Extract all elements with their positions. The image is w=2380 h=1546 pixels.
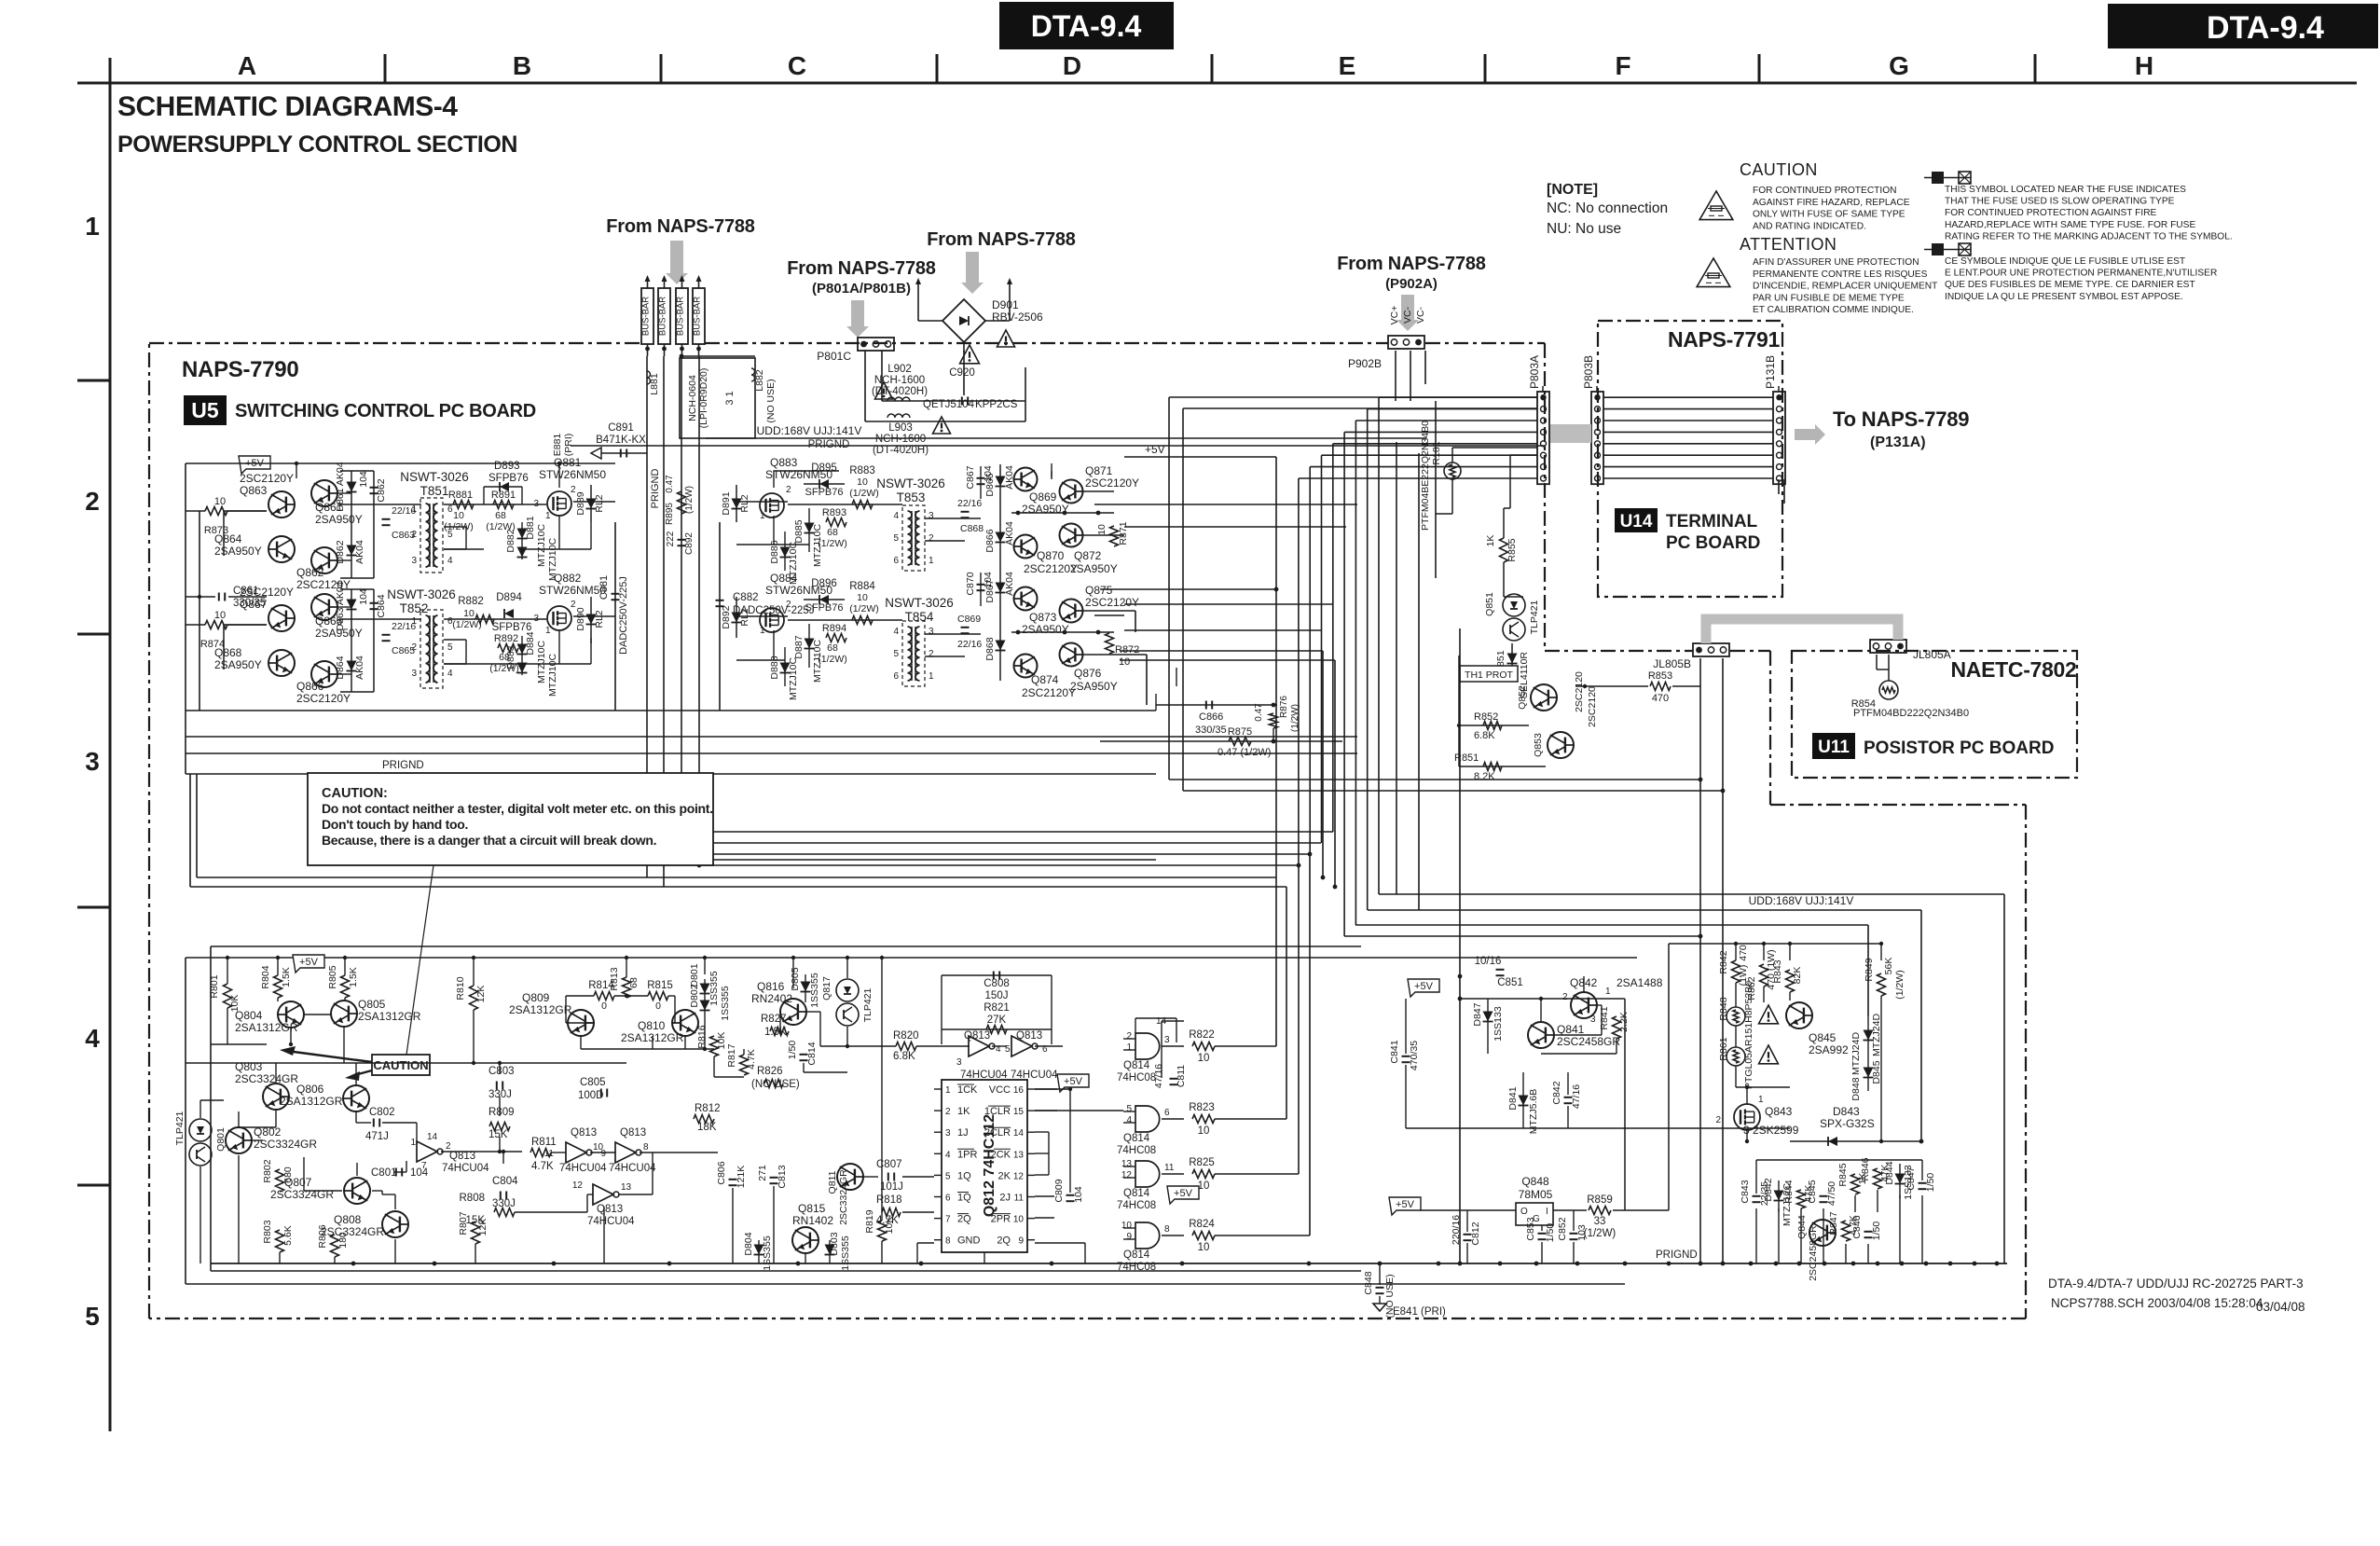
svg-text:MTZJ10C: MTZJ10C: [812, 640, 823, 683]
svg-text:+5V: +5V: [1396, 1199, 1415, 1210]
svg-text:R820: R820: [893, 1030, 919, 1042]
svg-text:C920: C920: [949, 367, 975, 379]
svg-text:C811: C811: [1176, 1065, 1187, 1087]
svg-text:F: F: [1615, 51, 1630, 80]
svg-text:(P902A): (P902A): [1385, 276, 1438, 292]
svg-text:2: 2: [786, 485, 791, 495]
svg-text:680: 680: [282, 1166, 294, 1183]
svg-text:22/16: 22/16: [957, 498, 982, 509]
svg-text:SFPB76: SFPB76: [805, 487, 844, 498]
svg-text:D889: D889: [575, 491, 586, 515]
svg-text:D882: D882: [505, 529, 516, 552]
svg-text:TERMINAL: TERMINAL: [1666, 512, 1758, 531]
svg-text:TH1 PROT: TH1 PROT: [1465, 669, 1514, 681]
svg-text:D867: D867: [984, 579, 996, 602]
svg-text:U5: U5: [191, 398, 219, 422]
svg-text:4: 4: [447, 669, 453, 679]
svg-text:Q816: Q816: [757, 980, 785, 993]
svg-text:471J: 471J: [365, 1131, 389, 1142]
svg-text:POWERSUPPLY CONTROL SECTION: POWERSUPPLY CONTROL SECTION: [117, 131, 517, 158]
svg-text:10/16: 10/16: [1475, 956, 1502, 967]
svg-text:C843: C843: [1740, 1180, 1751, 1203]
svg-text:(PRI): (PRI): [563, 434, 574, 457]
svg-text:T852: T852: [400, 601, 429, 615]
svg-text:13: 13: [1121, 1159, 1133, 1169]
svg-text:104: 104: [1073, 1186, 1084, 1203]
svg-text:+5V: +5V: [1414, 981, 1434, 992]
svg-text:2SC3324GR: 2SC3324GR: [270, 1188, 334, 1201]
svg-text:2SC3324GR: 2SC3324GR: [838, 1169, 849, 1225]
svg-text:3: 3: [1164, 1035, 1170, 1045]
svg-text:2Q: 2Q: [957, 1214, 971, 1225]
svg-text:15K: 15K: [488, 1129, 508, 1140]
svg-text:R873: R873: [204, 525, 228, 536]
svg-text:NCPS7788.SCH 2003/04/08 15:28:: NCPS7788.SCH 2003/04/08 15:28:04: [2051, 1296, 2263, 1310]
svg-text:2: 2: [929, 533, 934, 544]
svg-text:D803: D803: [829, 1232, 840, 1255]
svg-text:10: 10: [214, 610, 226, 621]
svg-text:10: 10: [1121, 1221, 1133, 1231]
svg-text:P902B: P902B: [1348, 357, 1382, 370]
svg-text:3: 3: [411, 669, 417, 679]
svg-text:BUS-BAR: BUS-BAR: [658, 297, 668, 336]
svg-text:180: 180: [337, 1232, 349, 1249]
svg-text:2K: 2K: [998, 1170, 1011, 1181]
svg-text:6: 6: [893, 556, 899, 566]
svg-text:(1/2W): (1/2W): [1894, 970, 1905, 1000]
svg-text:RL2: RL2: [739, 494, 750, 512]
svg-text:UDD:168V UJJ:141V: UDD:168V UJJ:141V: [1749, 894, 1854, 907]
svg-text:5: 5: [85, 1302, 100, 1331]
svg-text:1SS355: 1SS355: [762, 1235, 773, 1271]
svg-text:CE SYMBOLE INDIQUE QUE LE FUSI: CE SYMBOLE INDIQUE QUE LE FUSIBLE UTLISE…: [1945, 256, 2185, 267]
svg-text:Q814: Q814: [1123, 1133, 1150, 1144]
svg-text:101J: 101J: [880, 1181, 903, 1193]
svg-text:L882: L882: [754, 369, 765, 392]
svg-text:SFPB76: SFPB76: [492, 622, 532, 633]
svg-text:2: 2: [929, 649, 934, 659]
svg-text:O: O: [1520, 1207, 1528, 1217]
svg-text:R855: R855: [1506, 538, 1518, 561]
svg-text:PC BOARD: PC BOARD: [1666, 533, 1760, 553]
svg-text:Q804: Q804: [235, 1009, 263, 1022]
svg-text:C866: C866: [1199, 711, 1223, 723]
svg-text:C808: C808: [984, 978, 1010, 989]
svg-text:QETJ5104: QETJ5104: [923, 399, 975, 410]
svg-text:1: 1: [929, 671, 934, 682]
svg-text:H: H: [2135, 51, 2153, 80]
svg-text:E: E: [1339, 51, 1356, 80]
svg-text:C814: C814: [806, 1042, 818, 1065]
svg-text:16: 16: [1013, 1085, 1025, 1096]
svg-text:2SA950Y: 2SA950Y: [315, 513, 363, 526]
svg-text:4.7K: 4.7K: [746, 1049, 757, 1070]
svg-text:1CK: 1CK: [957, 1084, 978, 1096]
svg-text:R806: R806: [317, 1224, 328, 1248]
svg-text:Q841: Q841: [1557, 1023, 1585, 1036]
svg-text:D804: D804: [743, 1232, 754, 1255]
svg-text:C861: C861: [233, 586, 259, 597]
svg-text:1.5K: 1.5K: [348, 967, 359, 987]
svg-text:B: B: [513, 51, 531, 80]
svg-text:UDD:168V UJJ:141V: UDD:168V UJJ:141V: [757, 424, 862, 437]
svg-text:1PR: 1PR: [957, 1149, 977, 1160]
svg-text:TLP421: TLP421: [174, 1111, 186, 1145]
svg-text:R818: R818: [876, 1194, 902, 1206]
svg-text:1SS355: 1SS355: [708, 971, 720, 1006]
svg-text:D805: D805: [790, 967, 801, 990]
svg-text:BUS-BAR: BUS-BAR: [676, 297, 686, 336]
svg-text:1/50: 1/50: [787, 1041, 798, 1060]
svg-text:NCH-0604: NCH-0604: [687, 375, 698, 421]
svg-text:R881: R881: [448, 490, 473, 501]
svg-text:R817: R817: [726, 1043, 737, 1067]
svg-text:2J: 2J: [999, 1193, 1011, 1204]
svg-text:2SC2120: 2SC2120: [1574, 671, 1585, 712]
svg-text:RBV-2506: RBV-2506: [992, 311, 1043, 324]
svg-text:68: 68: [827, 642, 838, 654]
svg-text:14: 14: [427, 1132, 438, 1142]
svg-text:10: 10: [463, 608, 475, 619]
svg-text:1/50: 1/50: [1925, 1173, 1936, 1193]
svg-text:D848: D848: [1850, 1077, 1862, 1100]
svg-text:R874: R874: [200, 639, 225, 650]
svg-text:U14: U14: [1620, 512, 1653, 531]
svg-text:C806: C806: [716, 1161, 727, 1184]
svg-text:Q811: Q811: [827, 1170, 838, 1194]
svg-text:JL805B: JL805B: [1653, 657, 1691, 670]
svg-text:NAPS-7791: NAPS-7791: [1668, 327, 1781, 352]
svg-text:SFPB76: SFPB76: [488, 473, 529, 484]
svg-text:12: 12: [1121, 1170, 1133, 1180]
svg-text:1/50: 1/50: [1545, 1223, 1556, 1243]
svg-text:AK04: AK04: [1004, 521, 1015, 545]
svg-text:2SA992: 2SA992: [1809, 1043, 1849, 1056]
svg-text:Q872: Q872: [1074, 549, 1102, 562]
svg-text:2: 2: [945, 1107, 951, 1117]
svg-text:2SC2120Y: 2SC2120Y: [1022, 686, 1076, 699]
svg-text:AGAINST FIRE HAZARD, REPLACE: AGAINST FIRE HAZARD, REPLACE: [1753, 198, 1910, 208]
svg-text:6.8K: 6.8K: [1474, 730, 1495, 741]
svg-text:2SA950Y: 2SA950Y: [1022, 503, 1069, 516]
svg-text:4: 4: [893, 511, 899, 521]
svg-text:CAUTION: CAUTION: [1740, 160, 1818, 179]
svg-text:4.7K: 4.7K: [531, 1161, 554, 1172]
svg-text:T853: T853: [897, 490, 926, 504]
svg-text:C801: C801: [371, 1167, 397, 1179]
svg-text:3: 3: [929, 511, 934, 521]
svg-text:POSISTOR PC BOARD: POSISTOR PC BOARD: [1864, 738, 2054, 758]
svg-text:SCHEMATIC DIAGRAMS-4: SCHEMATIC DIAGRAMS-4: [117, 91, 458, 122]
svg-text:4: 4: [447, 556, 453, 566]
svg-text:HAZARD,REPLACE WITH SAME TYPE: HAZARD,REPLACE WITH SAME TYPE FUSE. FOR …: [1945, 220, 2195, 230]
svg-text:1: 1: [545, 626, 551, 636]
svg-text:NSWT-3026: NSWT-3026: [400, 470, 469, 484]
svg-text:NCH-1600: NCH-1600: [875, 434, 926, 445]
svg-text:12K: 12K: [477, 1219, 488, 1236]
svg-text:Q813: Q813: [449, 1151, 475, 1162]
svg-text:MTZJ24D: MTZJ24D: [1850, 1032, 1862, 1076]
svg-text:13: 13: [1013, 1150, 1025, 1160]
svg-text:Q871: Q871: [1085, 464, 1113, 477]
svg-text:1: 1: [411, 504, 417, 515]
svg-text:R801: R801: [209, 974, 220, 998]
svg-text:0.47: 0.47: [1254, 703, 1264, 722]
svg-text:D868: D868: [984, 637, 996, 660]
svg-text:THAT THE FUSE USED IS SLOW OPE: THAT THE FUSE USED IS SLOW OPERATING TYP…: [1945, 197, 2175, 207]
svg-text:2SC2120Y: 2SC2120Y: [1085, 596, 1139, 609]
svg-text:AND RATING INDICATED.: AND RATING INDICATED.: [1753, 221, 1866, 231]
svg-text:R811: R811: [531, 1137, 557, 1148]
svg-text:R846: R846: [1860, 1157, 1871, 1180]
svg-text:Q883: Q883: [770, 456, 798, 469]
svg-text:3: 3: [956, 1057, 962, 1068]
svg-text:10: 10: [453, 510, 464, 521]
svg-text:BUS-BAR: BUS-BAR: [641, 297, 652, 336]
svg-text:NAETC-7802: NAETC-7802: [1950, 657, 2076, 682]
svg-text:R893: R893: [822, 507, 846, 518]
svg-text:1: 1: [1126, 1042, 1132, 1053]
svg-text:From NAPS-7788: From NAPS-7788: [787, 258, 936, 279]
svg-text:2SC2458GR: 2SC2458GR: [1808, 1225, 1819, 1281]
svg-text:4: 4: [945, 1150, 951, 1160]
svg-text:R849: R849: [1864, 958, 1875, 981]
svg-text:Q851: Q851: [1484, 592, 1495, 616]
svg-text:Q814: Q814: [1123, 1249, 1150, 1261]
svg-text:D841: D841: [1507, 1086, 1519, 1110]
svg-text:Q870: Q870: [1037, 549, 1065, 562]
svg-text:6: 6: [1164, 1108, 1170, 1118]
svg-text:D890: D890: [575, 607, 586, 630]
svg-text:2SA1312GR: 2SA1312GR: [509, 1003, 572, 1016]
svg-text:56K: 56K: [1883, 958, 1894, 975]
svg-text:Q813: Q813: [964, 1030, 990, 1042]
svg-text:1Q: 1Q: [957, 1170, 971, 1181]
svg-text:74HC08: 74HC08: [1117, 1072, 1156, 1084]
svg-text:(1/2W): (1/2W): [1584, 1228, 1616, 1239]
svg-text:74HC08: 74HC08: [1117, 1200, 1156, 1211]
svg-text:22/16: 22/16: [957, 639, 982, 650]
svg-text:PTFM04BD222Q2N34B0: PTFM04BD222Q2N34B0: [1853, 708, 1969, 719]
svg-text:D883: D883: [505, 645, 516, 669]
svg-text:To NAPS-7789: To NAPS-7789: [1833, 407, 1969, 431]
svg-text:104: 104: [410, 1167, 429, 1179]
svg-text:2SA1488: 2SA1488: [1616, 976, 1663, 989]
svg-text:Q810: Q810: [638, 1019, 666, 1032]
svg-text:47/16: 47/16: [1153, 1064, 1164, 1088]
svg-text:18K: 18K: [697, 1122, 717, 1133]
svg-text:Q862: Q862: [296, 566, 324, 579]
svg-text:R819: R819: [864, 1209, 875, 1233]
svg-text:10: 10: [1198, 1180, 1210, 1192]
svg-text:Q803: Q803: [235, 1060, 263, 1073]
svg-text:Q805: Q805: [358, 998, 386, 1011]
svg-text:2SC3324GR: 2SC3324GR: [254, 1138, 317, 1151]
svg-text:BUS-BAR: BUS-BAR: [693, 297, 703, 336]
svg-text:3 2SK2599: 3 2SK2599: [1743, 1124, 1799, 1137]
svg-text:(NO USE): (NO USE): [751, 1079, 800, 1090]
svg-text:R809: R809: [488, 1107, 515, 1118]
svg-text:R812: R812: [695, 1103, 721, 1114]
svg-text:C862: C862: [376, 478, 387, 502]
svg-text:0.47: 0.47: [665, 475, 675, 493]
svg-text:Q813: Q813: [597, 1204, 623, 1215]
svg-text:AK04: AK04: [1004, 572, 1015, 596]
svg-text:2SA950Y: 2SA950Y: [1022, 623, 1069, 636]
svg-text:From NAPS-7788: From NAPS-7788: [606, 216, 755, 237]
svg-text:220/16: 220/16: [1451, 1215, 1462, 1245]
svg-text:D845: D845: [1871, 1060, 1882, 1084]
svg-text:DADC250V-225J: DADC250V-225J: [733, 605, 815, 616]
svg-text:NSWT-3026: NSWT-3026: [387, 587, 456, 601]
svg-text:Q844: Q844: [1796, 1215, 1808, 1239]
svg-text:R827: R827: [761, 1014, 787, 1025]
svg-text:68: 68: [495, 510, 506, 521]
svg-text:KPP2CS: KPP2CS: [975, 399, 1018, 410]
svg-text:Q843: Q843: [1765, 1105, 1793, 1118]
svg-text:R816: R816: [696, 1025, 708, 1048]
svg-text:VC-: VC-: [1402, 306, 1413, 324]
svg-text:1: 1: [85, 212, 100, 241]
svg-text:Q815: Q815: [798, 1202, 826, 1215]
svg-text:R853: R853: [1648, 670, 1672, 682]
svg-text:D894: D894: [496, 592, 522, 603]
svg-text:FOR CONTINUED PROTECTION AGAIN: FOR CONTINUED PROTECTION AGAINST FIRE: [1945, 208, 2157, 218]
svg-text:STW26NM50: STW26NM50: [539, 468, 606, 481]
svg-text:7: 7: [945, 1215, 951, 1225]
svg-text:AK04: AK04: [354, 540, 365, 564]
svg-text:C864: C864: [376, 594, 387, 617]
svg-text:C813: C813: [777, 1165, 788, 1188]
svg-text:TLP421: TLP421: [1529, 600, 1540, 634]
svg-text:R821: R821: [984, 1002, 1010, 1014]
svg-text:R802: R802: [262, 1159, 273, 1182]
svg-text:1: 1: [945, 1085, 951, 1096]
svg-text:Q817: Q817: [821, 976, 832, 1001]
svg-text:0: 0: [601, 1001, 607, 1012]
svg-text:4: 4: [1126, 1115, 1132, 1125]
svg-text:2: 2: [411, 642, 417, 653]
svg-text:104: 104: [358, 471, 369, 488]
svg-text:Q852: Q852: [1517, 685, 1528, 710]
svg-text:[NOTE]: [NOTE]: [1547, 182, 1598, 198]
svg-text:100D: 100D: [578, 1090, 604, 1101]
svg-text:C812: C812: [1470, 1222, 1481, 1245]
svg-text:103: 103: [1576, 1224, 1588, 1241]
svg-text:FOR CONTINUED PROTECTION: FOR CONTINUED PROTECTION: [1753, 186, 1897, 196]
svg-text:Because, there is a danger tha: Because, there is a danger that a circui…: [322, 833, 656, 848]
svg-text:R822: R822: [1189, 1029, 1215, 1041]
svg-text:ONLY WITH FUSE OF SAME TYPE: ONLY WITH FUSE OF SAME TYPE: [1753, 210, 1905, 220]
svg-text:3 1: 3 1: [724, 391, 736, 405]
svg-text:2SC3324GR: 2SC3324GR: [235, 1072, 298, 1085]
svg-text:NAPS-7790: NAPS-7790: [182, 357, 298, 382]
svg-text:D895: D895: [811, 462, 837, 474]
svg-text:R804: R804: [260, 965, 271, 988]
svg-text:C851: C851: [1497, 977, 1523, 988]
svg-text:C807: C807: [876, 1159, 902, 1170]
svg-text:2: 2: [1126, 1031, 1132, 1042]
svg-text:Q876: Q876: [1074, 667, 1102, 680]
svg-text:Q845: Q845: [1809, 1031, 1837, 1044]
svg-text:R808: R808: [460, 1193, 486, 1204]
svg-text:R841: R841: [1599, 1006, 1610, 1029]
svg-text:(DT-4020H): (DT-4020H): [872, 386, 928, 397]
svg-text:4: 4: [893, 627, 899, 637]
svg-text:4: 4: [85, 1024, 100, 1053]
svg-text:330/35: 330/35: [233, 598, 266, 609]
svg-text:0.47 (1/2W): 0.47 (1/2W): [1218, 747, 1271, 758]
svg-text:C809: C809: [1053, 1179, 1065, 1202]
svg-text:AFIN D'ASSURER UNE PROTECTION: AFIN D'ASSURER UNE PROTECTION: [1753, 257, 1919, 268]
svg-text:VC-: VC-: [1415, 306, 1426, 324]
svg-text:THIS SYMBOL LOCATED NEAR THE F: THIS SYMBOL LOCATED NEAR THE FUSE INDICA…: [1945, 185, 2186, 195]
svg-text:DTA-9.4: DTA-9.4: [1031, 9, 1142, 43]
svg-text:2SA950Y: 2SA950Y: [1070, 680, 1118, 693]
svg-text:R892: R892: [494, 633, 518, 644]
svg-text:R842: R842: [1718, 950, 1729, 973]
svg-text:C867: C867: [965, 465, 976, 489]
svg-text:8: 8: [643, 1142, 649, 1153]
svg-text:1: 1: [411, 616, 417, 627]
svg-text:3: 3: [411, 556, 417, 566]
svg-text:Q873: Q873: [1029, 611, 1057, 624]
svg-text:9: 9: [1018, 1236, 1024, 1247]
svg-text:C852: C852: [1557, 1217, 1568, 1240]
svg-text:Q866: Q866: [296, 680, 324, 693]
svg-text:78M05: 78M05: [1519, 1188, 1553, 1201]
svg-text:U11: U11: [1818, 738, 1850, 757]
svg-text:1/50: 1/50: [1871, 1222, 1882, 1241]
svg-text:68: 68: [827, 527, 838, 538]
svg-text:+5V: +5V: [1064, 1076, 1083, 1087]
svg-text:1: 1: [760, 626, 765, 636]
svg-text:2SA1312GR: 2SA1312GR: [358, 1010, 421, 1023]
svg-text:R807: R807: [458, 1211, 469, 1235]
svg-text:1SS133: 1SS133: [1493, 1006, 1504, 1042]
svg-text:5: 5: [945, 1171, 951, 1181]
svg-text:2SA950Y: 2SA950Y: [214, 658, 262, 671]
svg-text:R805: R805: [327, 965, 338, 988]
svg-text:10: 10: [857, 592, 868, 603]
svg-text:14: 14: [1013, 1128, 1025, 1139]
svg-text:Q813: Q813: [1016, 1030, 1042, 1042]
svg-text:27K: 27K: [987, 1015, 1007, 1026]
svg-text:104: 104: [358, 588, 369, 605]
svg-text:D881: D881: [525, 516, 536, 539]
svg-text:E841 (PRI): E841 (PRI): [1393, 1306, 1446, 1318]
svg-text:L902: L902: [887, 364, 912, 375]
svg-text:03/04/08: 03/04/08: [2256, 1300, 2305, 1314]
svg-text:CAUTION:: CAUTION:: [322, 786, 388, 801]
svg-text:Q809: Q809: [522, 991, 550, 1004]
svg-text:2: 2: [411, 530, 417, 540]
svg-text:3: 3: [945, 1128, 951, 1139]
svg-text:1: 1: [760, 511, 765, 521]
svg-text:Q863: Q863: [240, 484, 268, 497]
svg-text:470/35: 470/35: [1409, 1041, 1420, 1070]
svg-text:D865: D865: [984, 473, 996, 496]
svg-text:C805: C805: [580, 1077, 606, 1088]
svg-text:DTA-9.4: DTA-9.4: [2207, 10, 2324, 46]
svg-text:(NO USE): (NO USE): [765, 379, 777, 422]
svg-text:D866: D866: [984, 529, 996, 552]
svg-text:P803B: P803B: [1582, 355, 1595, 389]
svg-text:10: 10: [1198, 1125, 1210, 1137]
svg-text:C: C: [788, 51, 806, 80]
svg-text:C803: C803: [488, 1066, 515, 1077]
svg-text:2SA1312GR: 2SA1312GR: [280, 1095, 343, 1108]
